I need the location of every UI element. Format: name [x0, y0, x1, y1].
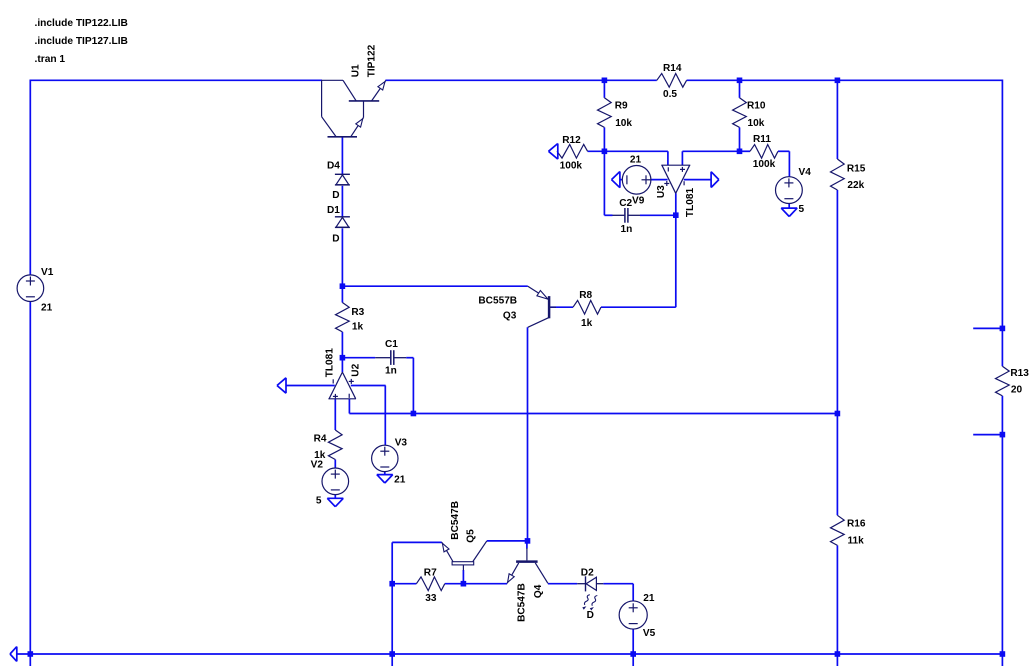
junction node C1/feedback	[411, 411, 417, 417]
voltage source V1	[17, 275, 44, 302]
resistor R3	[336, 303, 350, 332]
svg-text:R15: R15	[847, 163, 866, 174]
label R16 value	[848, 535, 865, 546]
resistor R13	[996, 366, 1010, 396]
label R7 designator	[424, 568, 437, 579]
label R11 value	[753, 159, 776, 170]
capacitor C2	[613, 208, 641, 223]
wire C2 right blue to U3 output node	[640, 214, 676, 216]
svg-text:Q3: Q3	[503, 311, 517, 322]
label U3 value TL081	[685, 188, 696, 218]
svg-text:C1: C1	[385, 339, 398, 350]
junction node top rail R9	[602, 78, 608, 84]
wire V5 to bottom rail	[632, 629, 634, 666]
wire R11 right lead to corner	[778, 150, 789, 152]
label R12 value	[560, 160, 583, 171]
svg-text:21: 21	[394, 474, 406, 485]
junction node left column R7	[389, 581, 395, 587]
wire V3 to ground	[384, 472, 386, 475]
wire Q4 collector to D2	[548, 583, 577, 585]
transistor Q4 (BC547B)	[507, 548, 548, 583]
junction bottom rail column	[389, 651, 395, 657]
svg-text:BC547B: BC547B	[450, 501, 461, 540]
svg-text:21: 21	[643, 593, 655, 604]
svg-text:Q5: Q5	[466, 529, 477, 543]
svg-text:11k: 11k	[848, 535, 865, 546]
svg-text:21: 21	[41, 303, 53, 314]
junction right rail stub lower	[1000, 432, 1006, 438]
label R14 value	[663, 89, 677, 100]
junction bottom rail V5	[630, 651, 636, 657]
port flag at bottom rail	[10, 647, 17, 662]
op-amp U3 (TL081)	[661, 165, 690, 193]
label Q3 value BC557B	[478, 295, 517, 306]
transistor U1 (TIP122 darlington)	[322, 80, 386, 137]
junction bottom rail right	[1000, 651, 1006, 657]
wire corner down to V4	[788, 151, 790, 177]
wire top rail left segment	[30, 79, 322, 81]
label Q4 value BC547B	[517, 583, 528, 622]
svg-text:V3: V3	[395, 437, 408, 448]
wire top rail from R14 to right corner	[687, 79, 1003, 81]
label D2 value	[587, 610, 594, 621]
svg-text:1n: 1n	[385, 365, 397, 376]
wire U2 non-inverting input to R4	[334, 399, 336, 430]
wire R10 bottom lead	[739, 127, 741, 151]
wire Q4 base stub	[526, 541, 528, 549]
label R9 value	[615, 118, 632, 129]
resistor R8	[573, 300, 601, 314]
label U3 designator	[656, 185, 667, 198]
svg-text:1k: 1k	[352, 321, 364, 332]
resistor R14	[657, 74, 687, 88]
label R16 designator	[847, 518, 866, 529]
label C2 designator	[619, 198, 632, 209]
wire corner down to V5	[632, 584, 634, 602]
port flag left of V9	[612, 172, 620, 188]
svg-text:U3: U3	[656, 185, 667, 198]
label R10 value	[748, 118, 765, 129]
label V1 value	[41, 303, 53, 314]
label V3 value	[394, 474, 406, 485]
label U1 value TIP122	[366, 44, 377, 77]
label Q5 value BC547B	[450, 501, 461, 540]
svg-text:D4: D4	[327, 160, 340, 171]
wire R8 to riser	[601, 306, 676, 308]
svg-text:100k: 100k	[560, 160, 583, 171]
voltage source V2	[322, 468, 349, 495]
resistor R11	[750, 145, 778, 159]
svg-text:5: 5	[316, 495, 322, 506]
wire R15 rail top	[836, 80, 838, 159]
svg-text:V4: V4	[799, 167, 812, 178]
voltage source V4	[776, 177, 803, 204]
svg-text:1k: 1k	[581, 318, 593, 329]
svg-text:V1: V1	[41, 267, 54, 278]
svg-text:33: 33	[425, 593, 437, 604]
diode D1	[335, 217, 350, 228]
svg-text:V9: V9	[632, 195, 645, 206]
label R14 designator	[663, 63, 682, 74]
wire left rail upper (V1 top)	[29, 80, 31, 276]
resistor R15	[831, 159, 845, 190]
transistor Q3 (BC557B)	[528, 286, 556, 327]
ground at V4	[781, 208, 797, 216]
resistor R7	[416, 577, 444, 591]
svg-text:R4: R4	[314, 434, 327, 445]
label R10 designator	[747, 100, 766, 111]
transistor Q5 (BC547B)	[442, 541, 487, 570]
wire right rail stub upper	[973, 327, 1002, 329]
svg-text:V2: V2	[311, 459, 324, 470]
op-amp U2 (TL081)	[328, 372, 356, 399]
label D2 designator	[581, 568, 594, 579]
wire U3 non-inverting to node R10	[682, 150, 739, 152]
wire U2 V+ down to V3	[384, 386, 386, 446]
svg-text:10k: 10k	[748, 118, 765, 129]
junction bottom rail left	[28, 651, 34, 657]
wire D2 to corner	[603, 583, 633, 585]
svg-text:R7: R7	[424, 568, 437, 579]
wire node R3 to Q3 emitter	[342, 285, 527, 287]
port flag at U2 V-	[277, 378, 286, 393]
label R15 designator	[847, 163, 866, 174]
svg-text:R8: R8	[579, 290, 592, 301]
svg-text:20: 20	[1011, 385, 1023, 396]
label R4 designator	[314, 434, 327, 445]
wire Q3 base to R8	[550, 306, 573, 308]
wire U2 V- to port	[286, 385, 335, 387]
resistor R9	[598, 98, 612, 128]
port flag at R12	[549, 144, 558, 160]
wire R10 top lead	[739, 80, 741, 98]
directive .include TIP122.LIB	[35, 18, 128, 29]
label V3 designator	[395, 437, 408, 448]
svg-text:D: D	[332, 190, 339, 201]
wire node to R3 / opamp output column	[341, 332, 343, 372]
wire V4 to ground	[788, 203, 790, 208]
label R13 value	[1011, 385, 1023, 396]
junction node feedback/R15 rail	[835, 411, 841, 417]
label D1 value	[332, 234, 339, 245]
label V5 value	[643, 628, 656, 639]
diode D2 (LED)	[577, 576, 603, 610]
label C2 value	[621, 224, 633, 235]
label R7 value	[425, 593, 437, 604]
label D4 value	[332, 190, 339, 201]
wire D1 to node at R3 top	[341, 228, 343, 302]
svg-text:.tran 1: .tran 1	[35, 54, 66, 65]
wire feedback rail to R15 rail	[349, 413, 837, 415]
junction node R3/Q3	[340, 283, 346, 289]
wire V9 to U3 V-	[651, 179, 668, 181]
wire C1 corner down to feedback node	[412, 358, 414, 414]
svg-text:TL081: TL081	[685, 188, 696, 218]
directive .include TIP127.LIB	[35, 36, 128, 47]
svg-text:R12: R12	[562, 135, 581, 146]
junction node R3/C1/U2 output	[340, 355, 346, 361]
junction bottom rail R16	[835, 651, 841, 657]
svg-text:D: D	[587, 610, 594, 621]
wire Q5 collector run	[487, 540, 528, 542]
label V9 designator	[630, 154, 642, 165]
wire node to C1 left lead	[342, 357, 375, 359]
junction node top rail R10	[737, 78, 743, 84]
label V1 designator	[41, 267, 54, 278]
wire port to V9	[620, 179, 623, 181]
label V9 value	[632, 195, 645, 206]
svg-text:R14: R14	[663, 63, 682, 74]
svg-text:BC557B: BC557B	[478, 295, 517, 306]
svg-text:D: D	[332, 234, 339, 245]
svg-text:U2: U2	[351, 363, 362, 376]
wire Q3 collector riser down	[527, 327, 529, 541]
wire R15 rail middle	[836, 190, 838, 515]
label R4 value	[314, 450, 326, 461]
wire Q5 base down	[462, 570, 464, 584]
junction right rail stub upper	[1000, 326, 1006, 332]
junction node R7/Q5 base	[461, 581, 467, 587]
junction node R9/R12/U3 in-	[602, 149, 608, 155]
svg-text:R10: R10	[747, 100, 766, 111]
label D4 designator	[327, 160, 340, 171]
label V5 designator	[643, 593, 655, 604]
svg-text:V5: V5	[643, 628, 656, 639]
label R3 designator	[351, 307, 364, 318]
wire node R9/R12 to U3 inverting	[604, 150, 668, 152]
label Q3 designator	[503, 311, 517, 322]
svg-text:R3: R3	[351, 307, 364, 318]
label R8 value	[581, 318, 593, 329]
wire left column Q5/R7	[391, 542, 393, 666]
label R9 designator	[615, 101, 628, 112]
resistor R16	[831, 515, 845, 545]
voltage source V3	[372, 445, 398, 471]
svg-text:1n: 1n	[621, 224, 633, 235]
wire right rail upper	[1001, 80, 1003, 367]
wire R9 top lead	[603, 80, 605, 98]
junction node R10/R11/U3 in+	[737, 149, 743, 155]
svg-text:D2: D2	[581, 568, 594, 579]
label U2 value TL081	[324, 348, 335, 378]
wire top rail from U1 emitter to R14	[385, 79, 656, 81]
wire riser R8 up to U3 output node	[675, 215, 677, 307]
wire node down C2 column	[603, 151, 605, 215]
svg-text:TIP122: TIP122	[366, 44, 377, 77]
resistor R12	[557, 144, 588, 158]
wire V2 to ground	[334, 495, 336, 499]
svg-text:0.5: 0.5	[663, 89, 677, 100]
label U1 designator	[351, 64, 362, 77]
wire R11 left lead	[740, 150, 751, 152]
svg-text:R13: R13	[1010, 368, 1029, 379]
junction node Q3/Q5/Q4	[525, 538, 531, 544]
svg-text:D1: D1	[327, 205, 340, 216]
ground at V3	[377, 475, 393, 483]
wire R4 to V2	[334, 460, 336, 469]
directive .tran 1	[35, 54, 66, 65]
svg-text:100k: 100k	[753, 159, 776, 170]
wire U2 inverting input down	[348, 399, 350, 414]
wire Q5 emitter run	[392, 541, 442, 543]
label R11 designator	[753, 134, 771, 145]
junction node top rail R15	[835, 78, 841, 84]
label V2 designator	[311, 459, 324, 470]
diode D4	[335, 174, 350, 185]
resistor R10	[733, 98, 747, 128]
svg-text:.include TIP127.LIB: .include TIP127.LIB	[35, 36, 128, 47]
wire U3 V+ to port	[684, 179, 711, 181]
wire R15 rail bottom	[836, 545, 838, 666]
wire R7 to Q4 emitter	[445, 583, 507, 585]
wire U2 V+ right	[351, 385, 386, 387]
wire C1 right lead to corner	[406, 357, 413, 359]
wire D4 to D1	[341, 186, 343, 217]
svg-text:10k: 10k	[615, 118, 632, 129]
svg-text:R9: R9	[615, 101, 628, 112]
label R3 value	[352, 321, 364, 332]
wire U3 output stub	[675, 193, 677, 215]
svg-text:Q4: Q4	[533, 584, 544, 598]
ground at V2	[327, 498, 343, 506]
wire left rail lower (V1 bottom to bottom rail)	[29, 301, 31, 666]
label R12 designator	[562, 135, 581, 146]
label U2 designator	[351, 363, 362, 376]
label R8 designator	[579, 290, 592, 301]
wire U1 base to D4	[341, 137, 343, 175]
label V2 value	[316, 495, 322, 506]
wire right rail lower	[1001, 396, 1003, 666]
svg-text:.include TIP122.LIB: .include TIP122.LIB	[35, 18, 128, 29]
svg-text:BC547B: BC547B	[517, 583, 528, 622]
junction node U3 output/C2/R8	[673, 212, 679, 218]
voltage source V5	[619, 601, 647, 629]
wire U3 non-inverting stub	[681, 151, 683, 165]
label C1 value	[385, 365, 397, 376]
svg-text:R16: R16	[847, 518, 866, 529]
label D1 designator	[327, 205, 340, 216]
wire C2 left blue	[604, 214, 612, 216]
wire bottom rail	[17, 653, 1003, 655]
label R15 value	[847, 180, 864, 191]
voltage source V9	[622, 166, 651, 195]
svg-text:TL081: TL081	[324, 348, 335, 378]
svg-text:21: 21	[630, 154, 642, 165]
label C1 designator	[385, 339, 398, 350]
label Q4 designator	[533, 584, 544, 598]
capacitor C1	[375, 350, 406, 365]
svg-text:C2: C2	[619, 198, 632, 209]
label Q5 designator	[466, 529, 477, 543]
svg-text:R11: R11	[753, 134, 771, 145]
label R13 designator	[1010, 368, 1029, 379]
svg-text:U1: U1	[351, 64, 362, 77]
wire R9 bottom lead	[603, 127, 605, 151]
label V4 designator	[799, 167, 812, 178]
resistor R4	[328, 430, 342, 460]
svg-text:5: 5	[799, 204, 805, 215]
wire right rail stub lower	[973, 434, 1002, 436]
wire R7 left lead	[392, 583, 416, 585]
port flag right of U3	[711, 172, 719, 188]
svg-text:22k: 22k	[847, 180, 864, 191]
label V4 value	[799, 204, 805, 215]
wire U3 inverting stub	[667, 151, 669, 165]
wire R12 right lead	[588, 150, 605, 152]
